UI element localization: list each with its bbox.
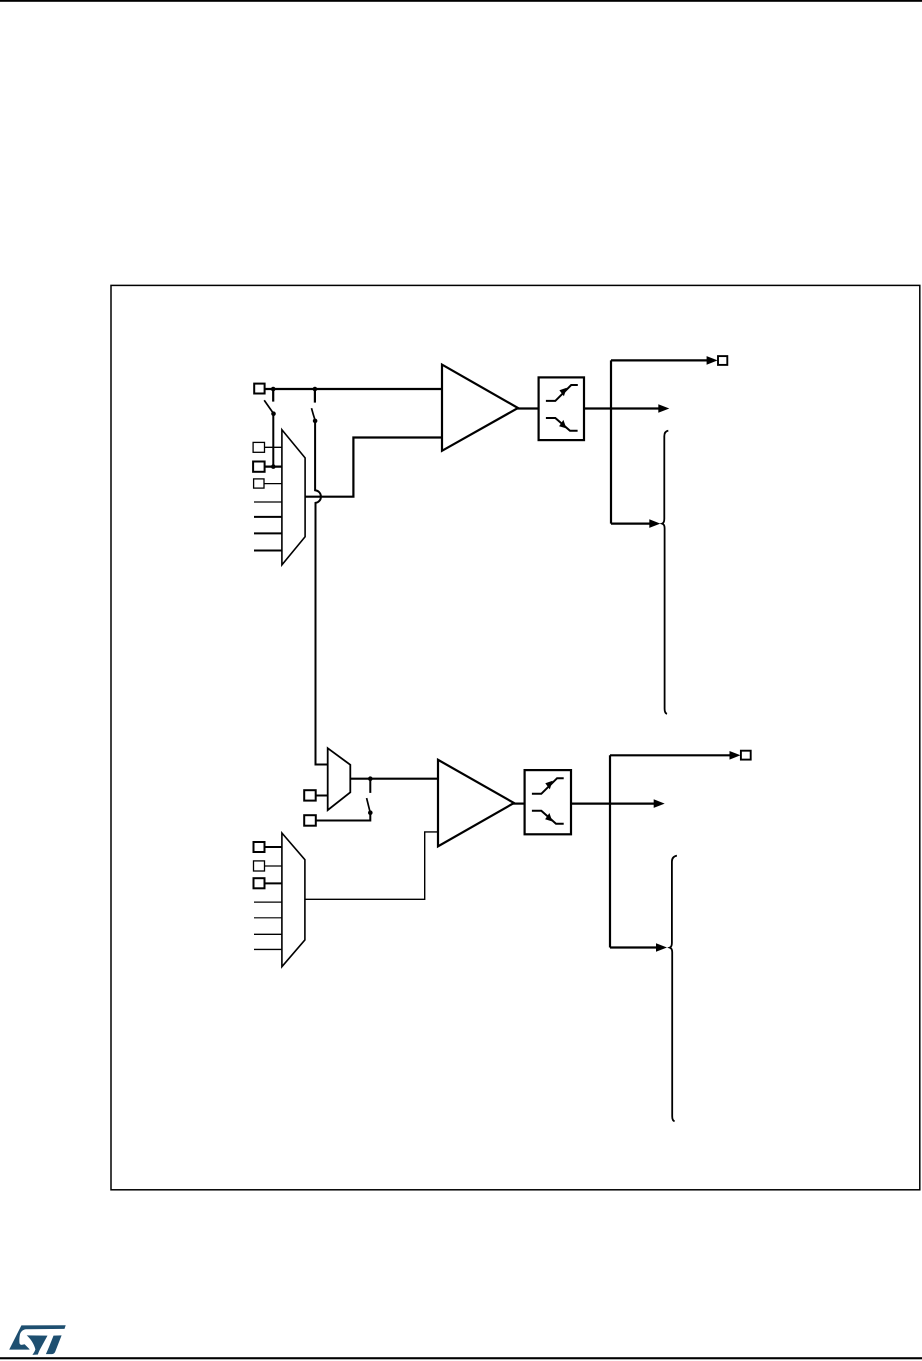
wire to pad OUT2 with arrow [610,751,741,760]
wire MUX1 output to COMP1 minus input [305,438,442,497]
pad INP2-b [304,815,316,826]
switch SW2 blade [312,408,318,423]
MUX2 input line DAC2 [254,917,282,919]
wire INM2-a to MUX2 [265,846,282,848]
HYST2 falling-edge glyph [532,811,564,824]
wire INM1-c to MUX1 [264,483,282,485]
wire SW3 to pad INP2-b [316,813,370,821]
pad INM2-c [254,878,265,888]
ST logo [9,1325,65,1355]
pad INM2-a [254,842,265,852]
wire MUX2 output to COMP2 minus input [305,832,439,899]
footer rule [0,1357,922,1359]
wire lower branch 2 with arrow to brace [610,943,667,952]
wire MUX3 output to COMP2 plus input [350,778,438,780]
wire INP1 to COMP1 plus input [265,388,443,390]
comparator COMP2 [438,760,514,847]
wire COMP2 output to HYST2 [512,802,525,804]
wire INP2-a to MUX3 [316,795,328,797]
switch SW3 blade [367,798,373,815]
brace B2 (to internal signals) [670,856,677,1122]
MUX1 input line VREF2 [254,550,282,552]
MUX2 input line VREF1 [254,933,282,935]
pad INM1-b [253,462,265,472]
wire output riser [610,360,612,523]
brace B1 (to internal signals) [662,431,668,714]
pad INP1 (non-inverting input pin) [254,384,264,394]
MUX2 input line VREF2 [254,948,282,950]
pad INM1-c [254,479,264,488]
wire INM1-a to MUX1 [265,446,282,448]
wire output riser 2 [609,755,611,947]
pad INM1-a [253,442,264,452]
wire INM2-c to MUX2 [265,882,282,884]
wire COMP1 output to HYST1 [516,407,539,409]
pad INM2-b [254,861,265,871]
MUX1 input line DAC2 [254,516,282,518]
wire HYST2 output with arrow [571,799,665,808]
MUX1 input line DAC1 [254,501,282,503]
wire INM2-b to MUX2 [265,865,282,867]
analog mux MUX1 [282,430,305,565]
wire SW1 to node J2 [272,414,274,467]
node J1 (junction dot on plus wire) [271,387,276,402]
comparator COMP1 [442,365,518,451]
node J2 (junction dot on INM wire) [271,464,276,469]
hysteresis block HYST2 [525,770,571,834]
wire INM1-b to MUX1 [265,466,282,468]
switch SW1 blade [264,400,276,416]
node J4 (junction dot) [368,776,373,793]
figure frame [111,285,920,1189]
HYST1 rising-edge glyph [546,385,578,401]
pad INP2-a [304,790,316,800]
pad OUT1 [718,356,727,365]
analog mux MUX3 (plus input selector) [328,748,351,810]
analog mux MUX2 [282,833,305,967]
wire HYST1 output with arrow [584,404,669,413]
wire lower branch with arrow to brace [611,519,660,528]
header rule [0,0,922,2]
HYST1 falling-edge glyph [546,418,578,431]
hysteresis block HYST1 [539,377,584,440]
wire to pad OUT1 with arrow [611,356,718,365]
node J3 (junction dot on plus wire) [313,387,318,403]
wire SW2 down to MUX3 with hop over MUX1 output [315,421,328,765]
pad OUT2 [741,751,751,760]
MUX2 input line DAC1 [254,901,282,903]
MUX1 input line VREF1 [254,532,282,534]
HYST2 rising-edge glyph [532,778,564,794]
